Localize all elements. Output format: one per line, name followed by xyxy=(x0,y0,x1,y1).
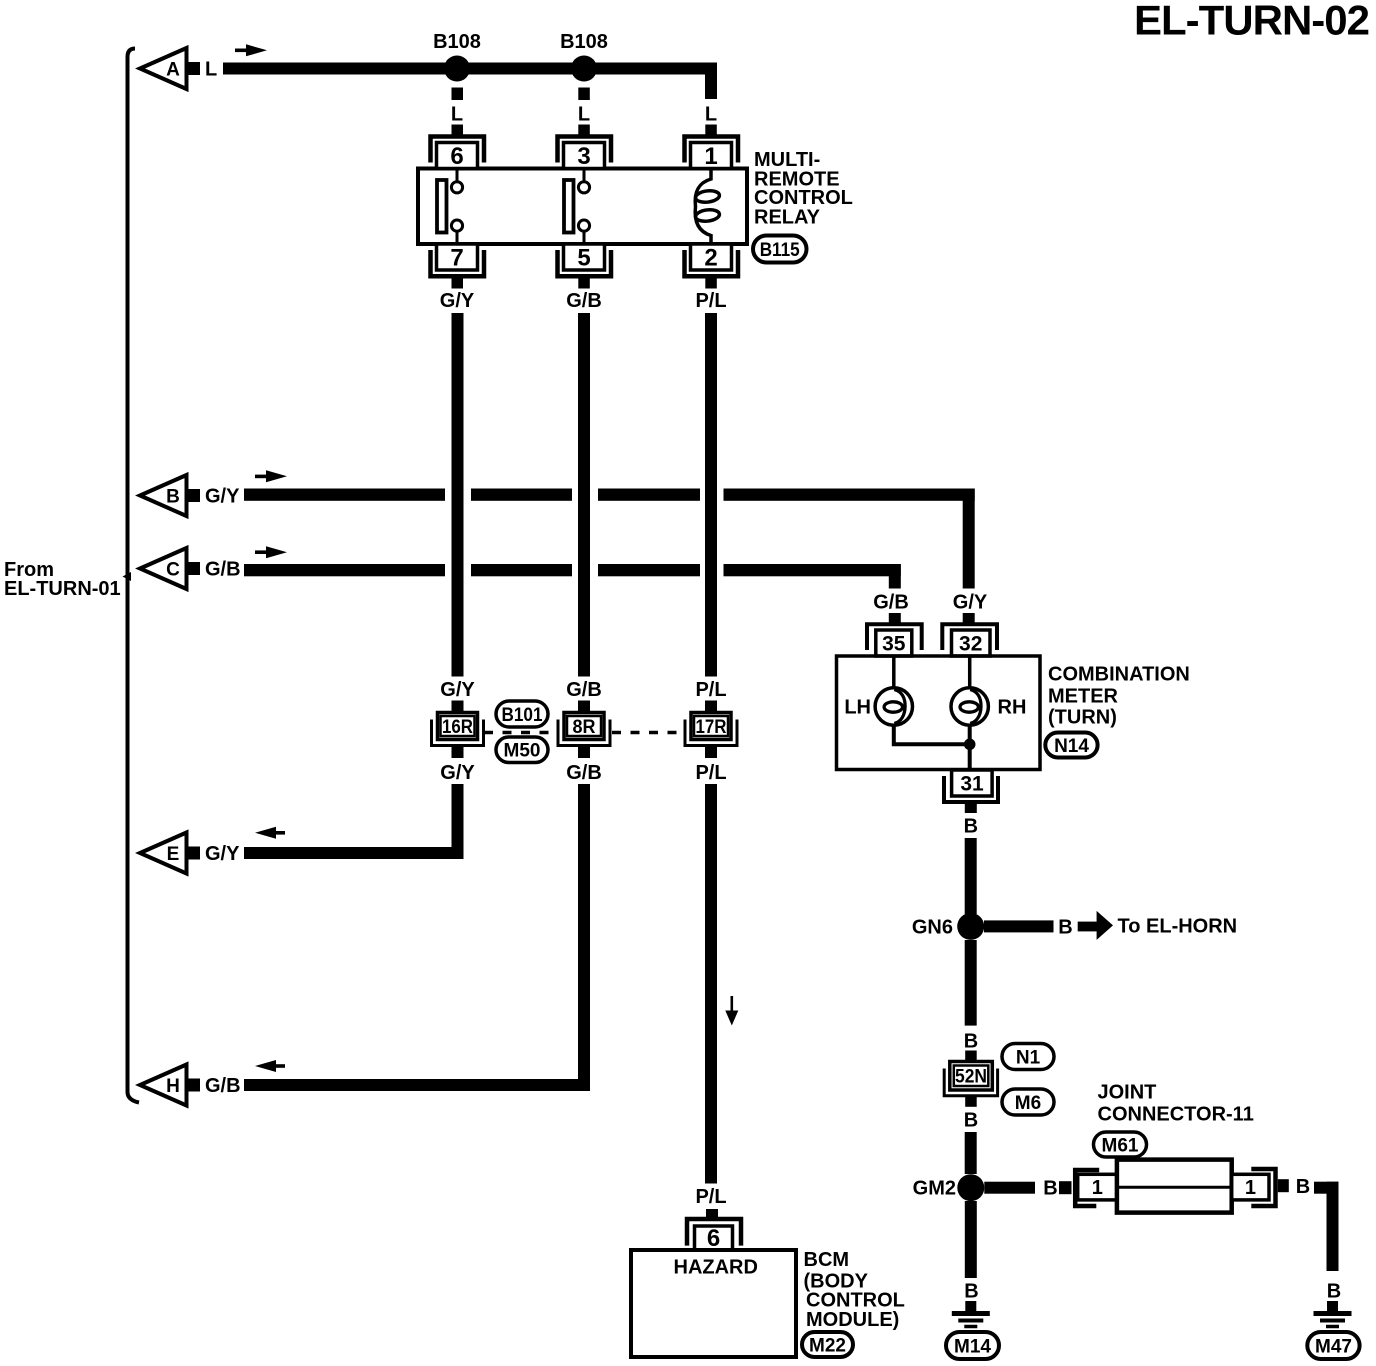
svg-text:1: 1 xyxy=(1092,1177,1103,1199)
wire H horizontal G/B xyxy=(244,1079,590,1091)
svg-text:GM2: GM2 xyxy=(913,1178,956,1200)
relay coil 1-2 xyxy=(695,169,711,245)
stub right of joint connector xyxy=(1278,1179,1289,1192)
svg-text:N14: N14 xyxy=(1054,736,1089,757)
joint connector right bracket xyxy=(1251,1169,1275,1206)
connector id M61 xyxy=(1094,1132,1147,1157)
ground M14 xyxy=(952,1311,990,1316)
wire P/L col3 vertical (relay to 17R) xyxy=(705,313,717,677)
wire G/Y col1 vertical (relay to 16R) xyxy=(452,313,464,677)
connector id B101 xyxy=(496,701,548,727)
relay pin 2 box xyxy=(691,244,732,270)
joint connector body xyxy=(1117,1160,1232,1213)
svg-text:(TURN): (TURN) xyxy=(1048,707,1117,729)
svg-text:H: H xyxy=(166,1076,180,1097)
relay contact 6-7 circles xyxy=(451,182,462,193)
relay pin 6 box xyxy=(437,143,478,169)
svg-text:G/B: G/B xyxy=(873,592,909,614)
stub above relay pin 1 xyxy=(705,125,717,138)
svg-text:16R: 16R xyxy=(442,717,473,738)
BCM pin 6 box xyxy=(695,1226,733,1250)
stub below node B108 left xyxy=(452,88,464,101)
relay pin 5 bracket xyxy=(558,250,612,276)
svg-text:2: 2 xyxy=(704,245,717,272)
svg-text:L: L xyxy=(578,104,590,126)
svg-text:L: L xyxy=(705,104,717,126)
svg-text:GN6: GN6 xyxy=(912,917,953,939)
svg-text:L: L xyxy=(205,59,217,81)
stub above ground M14 xyxy=(965,1301,976,1312)
svg-text:G/Y: G/Y xyxy=(440,762,475,784)
svg-text:1: 1 xyxy=(1245,1177,1256,1199)
stub below relay pin 5 xyxy=(578,277,590,289)
svg-text:G/B: G/B xyxy=(566,290,602,312)
lamp output wires xyxy=(894,725,970,744)
arrow right above wire B xyxy=(255,475,268,479)
svg-text:B: B xyxy=(964,816,978,838)
junction dot inside meter xyxy=(964,739,976,751)
svg-text:B: B xyxy=(1327,1281,1341,1303)
stub below pin 31 xyxy=(965,802,977,813)
stub above 52N xyxy=(965,1051,977,1062)
wire GM2 to joint connector xyxy=(984,1182,1035,1194)
combination meter body N14 xyxy=(837,656,1041,770)
svg-text:52N: 52N xyxy=(955,1067,987,1088)
svg-text:G/B: G/B xyxy=(566,762,602,784)
svg-text:G/Y: G/Y xyxy=(440,290,475,312)
stub at triangle E xyxy=(186,847,200,860)
joint connector right pin 1 box xyxy=(1232,1174,1269,1200)
connector triangle B xyxy=(140,475,187,516)
svg-text:B115: B115 xyxy=(760,240,800,261)
svg-text:B: B xyxy=(964,1281,978,1303)
svg-text:EL-TURN-01: EL-TURN-01 xyxy=(4,578,121,600)
stub below 52N xyxy=(965,1096,977,1107)
wire GN6 to EL-HORN branch xyxy=(984,920,1054,932)
svg-text:BCM: BCM xyxy=(804,1249,850,1271)
svg-text:P/L: P/L xyxy=(695,1186,726,1208)
relay pin 7 bracket xyxy=(431,250,485,276)
inline connector 17R xyxy=(691,713,731,740)
wire B horizontal G/Y segment 3 xyxy=(598,489,700,501)
arrow left above wire E xyxy=(255,827,276,839)
node B108 (right) xyxy=(571,56,597,82)
svg-text:MODULE): MODULE) xyxy=(806,1309,899,1331)
lamp RH lead xyxy=(968,656,972,689)
stub above 8R xyxy=(578,701,590,714)
relay U1 body xyxy=(418,169,747,245)
wire corner down to relay pin 1 xyxy=(705,63,717,100)
stub above meter pin 35 xyxy=(889,613,901,626)
relay pin 3 bracket xyxy=(558,137,612,163)
svg-text:EL-TURN-02: EL-TURN-02 xyxy=(1134,0,1369,44)
arrow to EL-HORN xyxy=(1078,922,1098,932)
svg-text:3: 3 xyxy=(577,143,590,170)
svg-text:LH: LH xyxy=(844,697,871,719)
connector triangle C xyxy=(140,548,187,589)
svg-text:G/Y: G/Y xyxy=(440,679,475,701)
svg-text:M47: M47 xyxy=(1315,1337,1352,1358)
wire C horizontal G/B segment 3 xyxy=(598,564,700,576)
wire E horizontal G/Y xyxy=(244,847,464,859)
svg-text:METER: METER xyxy=(1048,686,1119,708)
svg-text:B: B xyxy=(1058,917,1072,939)
stub above ground M47 xyxy=(1327,1301,1338,1312)
dashed link 16R to 8R xyxy=(484,731,556,735)
svg-text:B: B xyxy=(166,487,180,508)
connector triangle A xyxy=(140,48,187,89)
svg-text:G/Y: G/Y xyxy=(205,843,240,865)
wire C horizontal G/B segment 4 xyxy=(724,564,901,576)
relay contact 6-7 bar xyxy=(437,180,447,233)
wire C vertical down to meter pin 35 xyxy=(889,564,901,589)
stub below relay pin 7 xyxy=(452,277,464,289)
stub above BCM pin 6 xyxy=(706,1209,718,1220)
BCM body M22 xyxy=(631,1250,796,1357)
svg-text:35: 35 xyxy=(882,633,906,656)
svg-text:CONNECTOR-11: CONNECTOR-11 xyxy=(1098,1104,1254,1126)
svg-text:N1: N1 xyxy=(1016,1048,1041,1069)
relay pin 2 bracket xyxy=(685,250,739,276)
svg-text:1: 1 xyxy=(704,143,717,170)
wire C horizontal G/B segment 1 xyxy=(244,564,445,576)
svg-text:RH: RH xyxy=(998,697,1027,719)
svg-text:M50: M50 xyxy=(504,741,541,762)
lamp LH xyxy=(875,688,912,725)
node GN6 xyxy=(957,913,984,940)
svg-text:G/Y: G/Y xyxy=(953,592,988,614)
relay pin 5 box xyxy=(564,244,605,270)
meter pin 35 box xyxy=(876,630,912,656)
svg-text:P/L: P/L xyxy=(695,290,726,312)
wire B horizontal G/Y segment 1 xyxy=(244,489,445,501)
stub below 8R xyxy=(578,746,590,759)
svg-text:B: B xyxy=(1043,1178,1057,1200)
relay pin 1 bracket xyxy=(685,137,739,163)
meter pin 32 bracket xyxy=(942,624,997,650)
connector triangle E xyxy=(140,833,187,874)
relay contact 3-5 bar xyxy=(564,180,574,233)
meter pin 35 bracket xyxy=(867,624,922,650)
wire C horizontal G/B segment 2 xyxy=(471,564,572,576)
wire B vertical down to meter pin 32 xyxy=(963,489,975,589)
svg-text:E: E xyxy=(167,844,180,865)
relay contact 3-5 circles xyxy=(578,182,589,193)
stub at triangle C xyxy=(186,562,200,575)
svg-text:5: 5 xyxy=(577,245,590,272)
svg-text:G/B: G/B xyxy=(205,1075,241,1097)
wire GN6 down xyxy=(965,940,977,1026)
stub left of joint connector xyxy=(1059,1181,1072,1194)
svg-text:To EL-HORN: To EL-HORN xyxy=(1118,916,1238,938)
stub below 16R xyxy=(452,746,464,759)
inline connector 8R xyxy=(564,713,604,740)
svg-text:M14: M14 xyxy=(954,1337,991,1358)
svg-text:M61: M61 xyxy=(1102,1136,1139,1157)
svg-text:G/B: G/B xyxy=(205,559,241,581)
connector triangle H xyxy=(140,1065,187,1106)
svg-text:P/L: P/L xyxy=(695,679,726,701)
svg-text:P/L: P/L xyxy=(695,762,726,784)
wire joint to ground M47 xyxy=(1314,1182,1339,1194)
node B108 (left) xyxy=(444,56,470,82)
relay pin 1 box xyxy=(691,143,732,169)
svg-text:G/B: G/B xyxy=(566,679,602,701)
stub above relay pin 3 xyxy=(578,125,590,138)
svg-text:31: 31 xyxy=(960,773,984,796)
joint connector left pin 1 box xyxy=(1078,1174,1117,1200)
svg-text:M6: M6 xyxy=(1015,1093,1041,1114)
svg-text:COMBINATION: COMBINATION xyxy=(1048,664,1190,686)
svg-text:G/Y: G/Y xyxy=(205,486,240,508)
arrow down beside P/L wire xyxy=(731,996,734,1012)
stub at triangle B xyxy=(186,489,200,502)
BCM pin 6 bracket xyxy=(687,1219,741,1246)
bracket tick to From EL-TURN-01 xyxy=(123,572,132,581)
lamp RH xyxy=(951,688,988,725)
connector id M50 xyxy=(496,737,548,763)
arrow right above wire C xyxy=(255,550,268,554)
svg-text:6: 6 xyxy=(450,143,463,170)
inline connector 52N xyxy=(950,1062,993,1091)
relay pin 7 box xyxy=(437,244,478,270)
svg-text:B101: B101 xyxy=(502,705,543,726)
left page bracket xyxy=(128,49,140,1103)
svg-text:HAZARD: HAZARD xyxy=(674,1257,758,1279)
relay contact 6-7 leads xyxy=(456,169,459,183)
arrow left above wire H xyxy=(255,1060,276,1072)
connector id M6 xyxy=(1002,1089,1054,1115)
connector id M22 xyxy=(802,1332,853,1357)
node GM2 xyxy=(957,1174,984,1201)
svg-text:M22: M22 xyxy=(809,1336,846,1357)
wire pin31 to GN6 xyxy=(965,838,977,914)
wire A horizontal L xyxy=(223,63,717,75)
svg-text:A: A xyxy=(166,60,180,81)
stub above relay pin 6 xyxy=(452,125,464,138)
connector id N1 xyxy=(1002,1044,1054,1070)
stub below 17R xyxy=(705,746,717,759)
wire G/B col2 vertical (relay to 8R) xyxy=(578,313,590,677)
wire B horizontal G/Y segment 2 xyxy=(471,489,572,501)
svg-text:17R: 17R xyxy=(696,717,727,738)
wire H vertical col2 (8R down) xyxy=(578,784,590,1091)
svg-text:RELAY: RELAY xyxy=(754,207,821,229)
svg-text:7: 7 xyxy=(450,245,463,272)
connector id B115 xyxy=(753,236,807,263)
stub above 16R xyxy=(452,701,464,714)
svg-text:C: C xyxy=(166,560,180,581)
meter pin 32 box xyxy=(952,630,991,656)
dashed link 8R to 17R xyxy=(612,731,684,735)
stub at triangle H xyxy=(186,1079,200,1092)
joint connector left bracket xyxy=(1075,1170,1099,1206)
svg-text:B: B xyxy=(964,1110,978,1132)
lamp LH lead xyxy=(892,656,896,689)
inline connector 16R xyxy=(438,713,478,740)
meter pin 31 box xyxy=(952,770,993,796)
svg-text:8R: 8R xyxy=(573,717,596,738)
svg-text:6: 6 xyxy=(707,1225,720,1252)
svg-text:B: B xyxy=(1296,1176,1310,1198)
wire P/L col3 long vertical to BCM xyxy=(705,784,717,1184)
stub at triangle A xyxy=(186,62,200,75)
relay pin 3 box xyxy=(564,143,605,169)
svg-text:B: B xyxy=(964,1031,978,1053)
relay contact 3-5 leads xyxy=(583,169,586,183)
connector id N14 xyxy=(1045,733,1097,758)
stub above meter pin 32 xyxy=(963,613,975,626)
svg-text:32: 32 xyxy=(959,633,982,656)
wire 52N to GM2 xyxy=(965,1132,977,1174)
relay pin 6 bracket xyxy=(431,137,485,163)
stub below relay pin 2 xyxy=(705,277,717,289)
stub below node B108 right xyxy=(578,88,590,101)
svg-text:B108: B108 xyxy=(560,31,608,53)
svg-text:B108: B108 xyxy=(433,31,481,53)
ground M47 xyxy=(1314,1311,1352,1316)
svg-text:JOINT: JOINT xyxy=(1098,1082,1157,1104)
wire B horizontal G/Y segment 4 xyxy=(724,489,975,501)
arrow right above wire A xyxy=(235,49,248,53)
wire GM2 down xyxy=(965,1201,977,1278)
wire E vertical col1 (16R down) xyxy=(452,784,464,859)
stub above 17R xyxy=(705,701,717,714)
meter pin 31 bracket xyxy=(944,776,998,802)
svg-text:L: L xyxy=(451,104,463,126)
